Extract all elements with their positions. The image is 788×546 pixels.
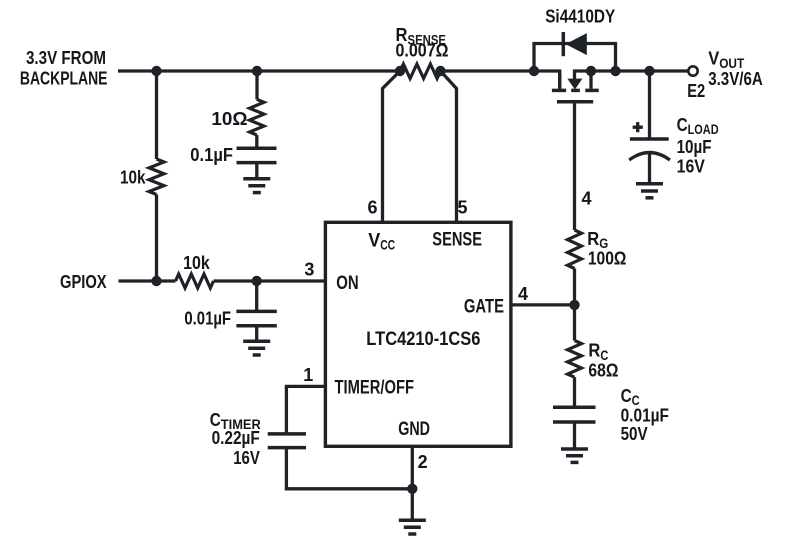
svg-text:0.007Ω: 0.007Ω xyxy=(396,39,449,60)
node dot MOSFET source xyxy=(586,66,596,76)
wire 10k to ON pin xyxy=(214,279,326,282)
svg-text:LTC4210-1CS6: LTC4210-1CS6 xyxy=(366,328,480,350)
wire VCC pin 6 from RSENSE left xyxy=(383,71,401,222)
svg-text:50V: 50V xyxy=(621,423,649,444)
ground below CLOAD xyxy=(636,184,663,198)
svg-text:CLOAD: CLOAD xyxy=(677,114,719,137)
svg-text:BACKPLANE: BACKPLANE xyxy=(20,68,108,89)
svg-text:3.3V FROM: 3.3V FROM xyxy=(26,47,106,68)
wire CLOAD branch xyxy=(648,71,651,139)
svg-text:5: 5 xyxy=(457,198,467,218)
svg-text:ON: ON xyxy=(336,273,358,294)
node dot gate xyxy=(569,300,579,310)
svg-text:Si4410DY: Si4410DY xyxy=(545,6,616,27)
ground below CC xyxy=(561,449,588,462)
capacitor CC labels xyxy=(621,385,669,444)
svg-text:VCC: VCC xyxy=(368,230,395,252)
svg-text:100Ω: 100Ω xyxy=(588,248,627,269)
wire CLOAD to ground xyxy=(648,153,651,184)
node dot RSENSE right xyxy=(435,66,445,76)
wire GATE pin 4 xyxy=(511,303,575,306)
node dot CLOAD branch xyxy=(644,66,654,76)
svg-text:16V: 16V xyxy=(233,447,260,468)
wire top rail left segment xyxy=(118,69,400,72)
wire RG to gate node xyxy=(573,269,576,341)
resistor R1 10k vertical wire top xyxy=(155,71,158,159)
svg-text:0.01µF: 0.01µF xyxy=(184,308,231,329)
op-amp U1 LTC4210-1CS6 box xyxy=(325,222,511,446)
transistor Q1 source stub xyxy=(589,71,592,89)
wire junction to ground xyxy=(411,489,414,520)
wire 10ohm branch top xyxy=(255,71,258,99)
svg-text:3: 3 xyxy=(304,259,314,279)
wire 0.01uF to ground xyxy=(255,326,258,341)
svg-text:TIMER/OFF: TIMER/OFF xyxy=(335,378,415,399)
capacitor CLOAD plus sign xyxy=(633,122,643,132)
svg-text:16V: 16V xyxy=(677,155,706,176)
svg-text:0.1µF: 0.1µF xyxy=(190,144,233,165)
capacitor CC plates xyxy=(553,406,596,410)
svg-text:3.3V/6A: 3.3V/6A xyxy=(708,68,763,89)
svg-text:E2: E2 xyxy=(687,80,705,101)
resistor RC zigzag xyxy=(568,341,582,378)
svg-text:2: 2 xyxy=(418,452,428,472)
transistor Q1 gate bar xyxy=(557,100,593,104)
node dot MOSFET left loop xyxy=(529,66,539,76)
wire top rail right segment xyxy=(591,69,688,72)
capacitor CLOAD top plate xyxy=(630,137,669,141)
transistor Q1 body arrow jog wire xyxy=(575,71,592,79)
resistor R3 10k horizontal zigzag xyxy=(176,274,214,288)
svg-text:1: 1 xyxy=(303,365,313,385)
capacitor CLOAD curved plate xyxy=(629,153,670,161)
node dot MOSFET right loop xyxy=(610,66,620,76)
wire 0.1uF to ground xyxy=(255,163,258,179)
node dot GPIOX junction xyxy=(151,276,161,286)
svg-text:10k: 10k xyxy=(120,167,146,188)
capacitor CTIMER plates xyxy=(268,432,306,436)
wire gate lead down xyxy=(573,102,576,230)
transistor Q1 channel bar middle xyxy=(571,89,580,93)
svg-text:4: 4 xyxy=(581,189,591,209)
svg-text:6: 6 xyxy=(367,198,377,218)
svg-text:GPIOX: GPIOX xyxy=(60,271,107,292)
ground below 0.1uF xyxy=(243,179,270,193)
node VIN label "3.3V FROM BACKPLANE" xyxy=(20,47,108,89)
wire SENSE pin 5 from RSENSE right xyxy=(441,71,457,222)
transistor Q1 drain stub xyxy=(558,71,561,89)
node dot at 10ohm branch xyxy=(252,66,262,76)
ground below 0.01uF xyxy=(243,341,270,355)
resistor RG zigzag xyxy=(568,230,582,269)
node VOUT labels xyxy=(687,48,763,101)
capacitor CLOAD labels xyxy=(677,114,719,176)
wire 10ohm to 0.1uF xyxy=(255,135,258,148)
wire RC to CC xyxy=(573,377,576,407)
wire GND pin 2 xyxy=(411,446,414,489)
svg-text:GND: GND xyxy=(398,419,430,440)
terminal E2 open circle xyxy=(688,66,697,75)
transistor Q1 body arrow xyxy=(567,79,582,90)
capacitor C2 0.01uF plates xyxy=(236,310,276,314)
resistor RC labels xyxy=(588,340,618,381)
ground main xyxy=(399,520,426,534)
resistor RSENSE value labels xyxy=(396,24,449,60)
resistor R2 10ohm zigzag xyxy=(250,99,264,135)
svg-text:4: 4 xyxy=(518,284,528,304)
capacitor C1 0.1uF plates xyxy=(237,147,277,151)
wire CC to ground xyxy=(573,422,576,449)
transistor Q1 channel bar right xyxy=(585,89,598,93)
svg-text:68Ω: 68Ω xyxy=(588,360,618,381)
wire TIMER/OFF pin 1 xyxy=(286,386,325,434)
resistor RG labels xyxy=(587,228,626,269)
capacitor CTIMER labels xyxy=(210,409,261,468)
wire 0.01uF branch xyxy=(255,281,258,311)
svg-text:10Ω: 10Ω xyxy=(211,108,247,129)
transistor Q1 body-diode loop wire xyxy=(534,44,616,72)
resistor R1 10k zigzag xyxy=(149,159,164,195)
node dot ground junction xyxy=(407,484,417,494)
wire top rail middle segment xyxy=(441,71,560,89)
wire GPIOX to 10k node xyxy=(119,279,176,282)
transistor Q1 body-diode cathode bar xyxy=(562,32,566,56)
node dot RSENSE left xyxy=(395,66,405,76)
svg-text:10µF: 10µF xyxy=(677,136,712,157)
transistor Q1 body-diode triangle xyxy=(566,33,587,55)
svg-text:SENSE: SENSE xyxy=(432,230,482,251)
svg-text:10k: 10k xyxy=(183,252,210,273)
node dot at 10k branch xyxy=(151,66,161,76)
transistor Q1 channel bar left xyxy=(552,89,566,93)
wire 10k to GPIOX node xyxy=(155,195,158,282)
node dot ON junction xyxy=(252,276,262,286)
svg-text:0.22µF: 0.22µF xyxy=(212,427,260,448)
resistor RSENSE zigzag xyxy=(400,64,441,79)
svg-text:GATE: GATE xyxy=(464,296,504,317)
wire CTIMER to ground node xyxy=(286,448,412,489)
